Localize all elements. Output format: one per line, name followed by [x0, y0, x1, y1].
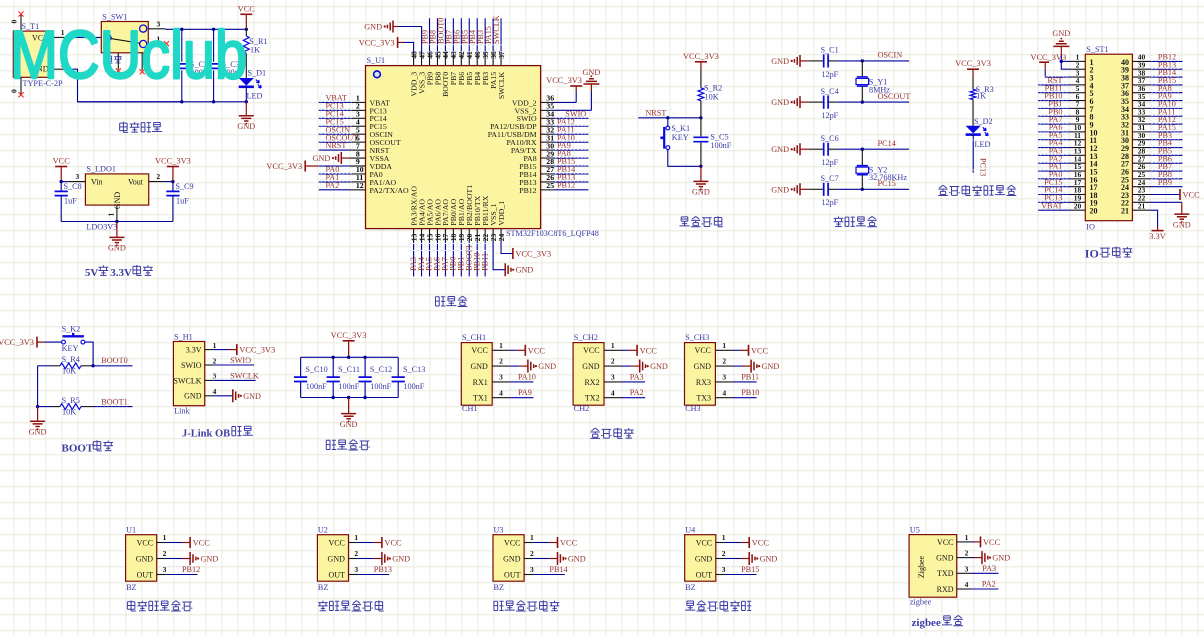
power VCC (CH2) [621, 345, 657, 356]
svg-text:PB12: PB12 [557, 181, 575, 190]
svg-text:GND: GND [1173, 220, 1191, 229]
wire / net PA2 [319, 181, 353, 190]
svg-text:3: 3 [499, 373, 503, 382]
wire / net PA6 (header left) [1038, 123, 1070, 132]
U5 pin 3 [957, 564, 972, 573]
ST1 pin 22 [1132, 194, 1149, 203]
svg-text:PB11: PB11 [480, 253, 489, 271]
ST1 pin 7 [1070, 100, 1085, 109]
power VCC_3V3 (LDO out) [155, 157, 191, 182]
U1 pin 24 [497, 229, 506, 242]
U1 pin 37 [497, 51, 506, 66]
ST1 pin 20 [1070, 201, 1085, 210]
svg-text:VCC: VCC [504, 538, 520, 547]
U3 pin 1 [524, 533, 534, 543]
svg-text:GND: GND [113, 192, 122, 210]
wire / net PB5 (top) [460, 18, 473, 53]
wire / net BOOT1 (bottom) [464, 242, 473, 276]
wire / net PA11 [553, 125, 588, 134]
junction on rail at C2 [180, 28, 183, 31]
svg-text:2: 2 [965, 549, 969, 558]
svg-text:1: 1 [722, 533, 726, 542]
svg-text:RX3: RX3 [696, 378, 711, 387]
CH3 pin 3 [715, 373, 732, 382]
svg-text:GND: GND [771, 98, 789, 107]
ground GND LDO [108, 222, 126, 253]
capacitor S_C4 12pF [809, 87, 839, 120]
U1 pin 6 [350, 133, 366, 142]
power VCC_3V3 (reset) [683, 52, 719, 70]
power VCC_3V3 (filter) [331, 331, 367, 358]
svg-text:LDO3V3: LDO3V3 [86, 222, 117, 231]
resistor S_R2 10K [698, 70, 722, 118]
svg-text:CH2: CH2 [574, 404, 589, 413]
wire / net PB4 (top) [468, 18, 481, 53]
power VCC (LDO input) [53, 157, 71, 182]
capacitor S_C3 [206, 29, 244, 102]
ground GND reset [692, 166, 710, 196]
H1 pin 1 [205, 341, 217, 350]
svg-text:21: 21 [1138, 201, 1146, 210]
ST1 pin 11 [1070, 131, 1085, 140]
ST1 pin 18 [1070, 186, 1085, 195]
svg-text:U3: U3 [494, 526, 504, 535]
module U4 BZ (IR) [685, 526, 716, 592]
U1 pin 40 [473, 51, 482, 66]
wire / net PA8 (header right) [1150, 84, 1183, 93]
svg-text:1uF: 1uF [176, 196, 189, 205]
svg-text:GND: GND [503, 554, 521, 563]
svg-text:GND: GND [771, 145, 789, 154]
svg-text:J-Link OB: J-Link OB [182, 429, 230, 440]
svg-text:2: 2 [499, 357, 503, 366]
junction D1 bottom [245, 100, 248, 103]
wire / net PB15 [553, 157, 588, 166]
svg-text:SWCLK: SWCLK [174, 376, 202, 385]
caption 复位电路 [679, 217, 689, 226]
junction NRST / R2 [699, 116, 702, 119]
wire / net VBAT [319, 94, 353, 103]
module U2 BZ (IR) [317, 526, 348, 592]
U1 pin 18 [449, 229, 458, 242]
ground GND at U1 VSS_3 (pin 47) [364, 21, 421, 54]
wire / net PB4 (header right) [1150, 139, 1183, 148]
svg-text:1: 1 [722, 341, 726, 350]
svg-text:S_C8: S_C8 [64, 182, 82, 191]
caption 红外避障模块 (U3) [494, 601, 504, 610]
U3 pin 2 [524, 549, 534, 559]
svg-text:TX1: TX1 [473, 394, 488, 403]
svg-text:RX1: RX1 [473, 378, 488, 387]
wire T1 pin2 to GND rail [66, 69, 182, 102]
U1 pin 44 [441, 51, 450, 66]
U2 pin 1 [349, 533, 359, 543]
caption 程序运行指示灯 [938, 185, 948, 195]
wire / net PC15 [319, 117, 353, 126]
svg-text:PA2/TX/AO: PA2/TX/AO [370, 186, 410, 195]
svg-text:IO: IO [1086, 222, 1095, 231]
CH1 pin 3 [492, 373, 509, 382]
wire / net PB11 (CH3) [732, 372, 759, 382]
power VCC (U2) [359, 537, 402, 548]
LDO pin 1 (gnd) [106, 205, 117, 221]
U1 pin 9 [350, 157, 366, 166]
svg-text:3: 3 [722, 565, 726, 574]
svg-text:12pF: 12pF [821, 158, 838, 167]
ground GND at U1 VSS_2 (pin 35) [553, 68, 600, 111]
wire / net PA15 (top) [484, 18, 497, 53]
ST1 pin 35 [1132, 92, 1149, 101]
svg-text:S_H1: S_H1 [174, 332, 193, 341]
svg-text:GND: GND [583, 68, 601, 77]
CH2 pin 3 [604, 373, 621, 382]
U1 pin 27 [541, 165, 555, 174]
filter top rail [301, 356, 399, 358]
ground GND filter [340, 398, 358, 429]
capacitor S_C12 100nF [359, 357, 393, 397]
wire / net PA7 (header left) [1038, 115, 1070, 124]
svg-text:GND: GND [516, 266, 534, 275]
svg-text:VCC: VCC [640, 346, 658, 355]
svg-text:VCC_3V3: VCC_3V3 [515, 250, 551, 259]
U1 pin 15 [425, 229, 434, 242]
wire / net PC15 (header left) [1038, 178, 1070, 187]
svg-text:3: 3 [354, 565, 358, 574]
U1 pin 17 [441, 229, 450, 242]
caption 滤波电路 [326, 440, 336, 449]
svg-text:S_C6: S_C6 [821, 134, 839, 143]
CH3 pin 2 [715, 357, 732, 366]
U1 pin 31 [541, 133, 555, 142]
ST1 pin 12 [1070, 139, 1085, 148]
svg-text:GND: GND [992, 554, 1010, 563]
U4 pin 1 [716, 533, 726, 543]
wire net PC14 [837, 139, 909, 149]
svg-text:SWCLK: SWCLK [492, 15, 501, 44]
svg-text:VCC_3V3: VCC_3V3 [546, 76, 582, 85]
svg-text:3: 3 [530, 565, 534, 574]
U1 pin 29 [541, 149, 555, 158]
ground GND at U1 VSS_1 (pin 23) [493, 242, 533, 276]
ST1 pin 31 [1132, 123, 1149, 132]
header S_CH3 [685, 333, 716, 413]
ground GND (U5) [972, 551, 1011, 564]
svg-text:VCC_3V3: VCC_3V3 [0, 338, 34, 347]
wire / net PB8 (top) [428, 18, 441, 53]
wire left rail boot [37, 366, 39, 407]
wire / net PB5 (header right) [1150, 146, 1183, 155]
svg-text:1K: 1K [250, 46, 260, 55]
SW1 pin 1 stub (n.c.) [148, 35, 163, 44]
svg-text:1: 1 [530, 533, 534, 542]
svg-text:10K: 10K [62, 407, 76, 416]
power VCC_3V3 at U1 VDD_3 (pin 48) [359, 37, 414, 53]
wire / net PA4 (bottom) [417, 242, 426, 276]
svg-text:S_C4: S_C4 [821, 87, 839, 96]
svg-text:1: 1 [499, 341, 503, 350]
ST1 pin 19 [1070, 194, 1085, 203]
svg-text:VCC_3V3: VCC_3V3 [155, 157, 191, 166]
CH3 pin 1 [715, 341, 732, 350]
svg-text:Vout: Vout [128, 178, 144, 187]
svg-text:100nF: 100nF [338, 382, 359, 391]
svg-text:Zigbee: Zigbee [917, 555, 926, 578]
wire / net PB12 (U1) [167, 565, 200, 575]
junction C9 top [171, 180, 174, 183]
wire / net PA10 [553, 133, 588, 142]
junction C8 top [60, 180, 63, 183]
wire D1 to GND rail [245, 87, 247, 102]
wire / net PB10 (bottom) [472, 242, 481, 276]
svg-text:GND: GND [340, 420, 358, 429]
svg-text:VDD_1: VDD_1 [497, 201, 506, 226]
wire / net PC13 (header left) [1038, 193, 1070, 202]
wire / net SWIO (jlink) [213, 356, 254, 365]
svg-text:2: 2 [163, 549, 167, 558]
svg-text:1: 1 [106, 213, 115, 217]
wire / net PA3 (bottom) [409, 242, 418, 276]
ST1 pin 10 [1070, 123, 1085, 132]
U1 pin 21 [473, 229, 482, 242]
wire / net SWCLK (top) [492, 15, 505, 53]
ground GND (jlink) [213, 389, 261, 402]
svg-text:OUT: OUT [137, 570, 154, 579]
H1 pin 4 [205, 387, 217, 396]
svg-text:VCC: VCC [53, 157, 71, 166]
svg-text:100nF: 100nF [370, 382, 391, 391]
ST1 pin 39 [1132, 60, 1149, 69]
ST1 pin 30 [1132, 131, 1149, 140]
svg-text:2: 2 [156, 172, 160, 181]
pushbutton S_K1 KEY [660, 124, 690, 149]
wire / net PA3 (U5) [972, 564, 999, 574]
svg-text:GND: GND [29, 428, 47, 437]
svg-text:1uF: 1uF [64, 196, 77, 205]
wire / net PB9 (top) [421, 18, 434, 53]
svg-text:VCC: VCC [751, 346, 769, 355]
caption 红外避障模块 (U4) [685, 601, 695, 610]
wire / net PB8 (header right) [1150, 170, 1183, 179]
ST1 pin 9 [1070, 115, 1085, 124]
svg-text:BZ: BZ [126, 583, 136, 592]
capacitor S_C10 100nF [294, 357, 328, 397]
caption 主芯片 [435, 297, 445, 306]
ST1 pin 5 [1070, 84, 1085, 93]
ST1 pin 26 [1132, 162, 1149, 171]
U5 pin 4 [957, 580, 972, 589]
svg-text:U1: U1 [126, 526, 136, 535]
pin 0 bottom of T1 [10, 77, 22, 94]
svg-text:U2: U2 [318, 526, 328, 535]
no-ERC mark SW1 pin4 [140, 69, 145, 74]
wire / net PA2 (U5) [972, 580, 999, 590]
svg-text:VCC: VCC [238, 4, 256, 13]
wire / net PA12 [553, 117, 588, 126]
U1 pin 45 [433, 51, 442, 66]
wire / net PB12 (header right) [1150, 53, 1183, 62]
svg-text:GND: GND [650, 362, 668, 371]
ground GND at U1 VSSA (pin 8) [313, 152, 366, 164]
svg-text:S_C9: S_C9 [175, 182, 193, 191]
svg-text:S_CH1: S_CH1 [462, 333, 486, 342]
caption 红外避障模块 (U2) [318, 601, 328, 611]
resistor S_R3 1K [970, 77, 994, 126]
ST1 pin 28 [1132, 147, 1149, 156]
CH1 pin 4 [492, 388, 509, 397]
wire / net PB7 (top) [444, 18, 457, 53]
ST1 pin 24 [1132, 178, 1149, 187]
svg-text:STM32F103C8T6_LQFP48: STM32F103C8T6_LQFP48 [506, 229, 599, 238]
svg-text:SWIO: SWIO [230, 356, 251, 365]
capacitor S_C9 1uF [166, 182, 193, 222]
ST1 pin 37 [1132, 76, 1149, 85]
svg-text:3: 3 [611, 373, 615, 382]
svg-text:4: 4 [499, 388, 503, 397]
wire / net PB15 (U4) [726, 565, 759, 575]
capacitor S_C6 12pF [809, 134, 839, 167]
wire / net PA0 [319, 165, 353, 174]
wire / net PA9 (CH1) [509, 388, 534, 398]
wire / net PA5 (bottom) [425, 242, 434, 276]
power VCC_3V3 (run LED) [955, 59, 991, 77]
caption 晶振电路 [834, 216, 844, 226]
power VCC_3V3 at U1 VDDA (pin 9) [266, 161, 365, 172]
power VCC (U1) [167, 537, 210, 548]
svg-text:4: 4 [213, 387, 217, 396]
wire / net PA1 (header left) [1038, 162, 1070, 171]
wire / net PC14 (header left) [1038, 186, 1070, 195]
U1 pin 5 [350, 125, 366, 134]
power VCC (CH3) [732, 345, 768, 356]
U1 pin 25 [541, 181, 555, 190]
svg-text:PC13: PC13 [979, 158, 988, 176]
capacitor S_C2 [174, 29, 212, 102]
U2 pin 3 [349, 565, 359, 575]
power VCC (U4) [726, 537, 769, 548]
ground GND (U1) [167, 552, 218, 565]
svg-text:2: 2 [722, 549, 726, 558]
ground GND (CH1) [509, 360, 556, 373]
svg-text:VCC: VCC [328, 538, 344, 547]
svg-text:1: 1 [965, 533, 969, 542]
CH2 pin 1 [604, 341, 621, 350]
wire VCC to Vin [61, 181, 67, 183]
junction boot gnd [36, 405, 39, 408]
U1 pin 34 [541, 110, 555, 119]
CH3 pin 4 [715, 388, 732, 397]
U5 pin 2 [957, 549, 972, 558]
U1 pin 28 [541, 157, 555, 166]
svg-text:PB12: PB12 [519, 186, 536, 195]
wire / net BOOT0 (top) [436, 18, 449, 53]
LED S_D1 [239, 69, 266, 101]
U1 pin 19 [457, 229, 466, 242]
svg-text:GND: GND [237, 122, 255, 131]
U1 pin 47 [417, 51, 426, 66]
wire net OSCIN [837, 51, 909, 61]
ST1 pin 4 [1070, 76, 1085, 85]
MCU S_U1 STM32F103C8T6 [366, 56, 599, 238]
junction crystal (OSCOUT) [861, 100, 864, 103]
svg-text:1: 1 [163, 533, 167, 542]
svg-text:Vin: Vin [91, 178, 103, 187]
U5 pin 1 [957, 533, 972, 542]
svg-text:5V: 5V [85, 267, 99, 279]
svg-text:2: 2 [354, 549, 358, 558]
ground GND (S_C1 row) [771, 55, 809, 67]
U1 pin 10 [350, 165, 366, 174]
ST1 pin 29 [1132, 139, 1149, 148]
caption 电源电路 [120, 122, 129, 133]
wire / net PB0 (header left) [1038, 107, 1070, 116]
svg-text:zigbee: zigbee [912, 617, 941, 629]
CH2 pin 4 [604, 388, 621, 397]
svg-text:1: 1 [213, 341, 217, 350]
svg-text:20: 20 [1090, 207, 1098, 216]
svg-text:3: 3 [213, 372, 217, 381]
svg-text:GND: GND [136, 554, 154, 563]
svg-text:S_C11: S_C11 [338, 365, 360, 374]
svg-text:VCC: VCC [471, 346, 487, 355]
ground GND (U3) [534, 552, 585, 565]
U1 pin 41 [465, 51, 474, 66]
U1 pin 23 [489, 229, 498, 242]
wire / net PB10 (header left) [1038, 92, 1070, 101]
wire / net PA3 (header left) [1038, 146, 1070, 155]
svg-text:VCC: VCC [137, 538, 153, 547]
wire / net VBAT (header left) [1038, 201, 1070, 210]
wire / net PC13 (LED) [968, 135, 988, 177]
wire / net PB14 (U3) [534, 565, 567, 575]
wire / net PA4 (header left) [1038, 139, 1070, 148]
U1 pin 38 [489, 51, 498, 66]
power 3.3V (header pin 21) [1149, 210, 1166, 241]
wire / net PB14 [553, 165, 588, 174]
junction BOOT0 [91, 364, 94, 367]
U1 pin 1 [350, 94, 366, 103]
junction crystal (OSCIN) [861, 59, 864, 62]
svg-text:GND: GND [470, 362, 488, 371]
svg-text:GND: GND [364, 23, 382, 32]
svg-text:32.768KHz: 32.768KHz [869, 173, 907, 182]
svg-text:GND: GND [313, 154, 331, 163]
svg-text:U4: U4 [685, 526, 695, 535]
svg-text:GND: GND [694, 362, 712, 371]
svg-text:VCC: VCC [983, 538, 1001, 547]
svg-text:12pF: 12pF [821, 70, 838, 79]
capacitor S_C5 100nF [693, 118, 731, 167]
crystal S_Y2 32.768KHz [856, 149, 907, 189]
svg-text:1: 1 [354, 533, 358, 542]
power VCC (header pin 23) [1150, 189, 1200, 200]
no-ERC mark SW1 pin2 [116, 68, 121, 73]
wire / net PB1 (bottom) [457, 242, 466, 276]
no-ERC mark bottom T1 [18, 92, 23, 97]
svg-text:GND: GND [538, 362, 556, 371]
svg-text:U5: U5 [910, 526, 920, 535]
junction at R1 top [245, 28, 248, 31]
svg-text:100nF: 100nF [710, 141, 731, 150]
U1 pin 22 [481, 229, 490, 242]
wire Vout to VCC_3V3 [165, 181, 173, 183]
junction crystal (PC14) [861, 148, 864, 151]
wire / net PA12 (header right) [1150, 115, 1183, 124]
module U3 BZ (IR) [493, 526, 524, 592]
svg-text:VCC: VCC [1183, 191, 1201, 200]
capacitor S_C1 12pF [809, 46, 839, 79]
CH1 pin 1 [492, 341, 509, 350]
svg-text:S_R5: S_R5 [62, 396, 80, 405]
